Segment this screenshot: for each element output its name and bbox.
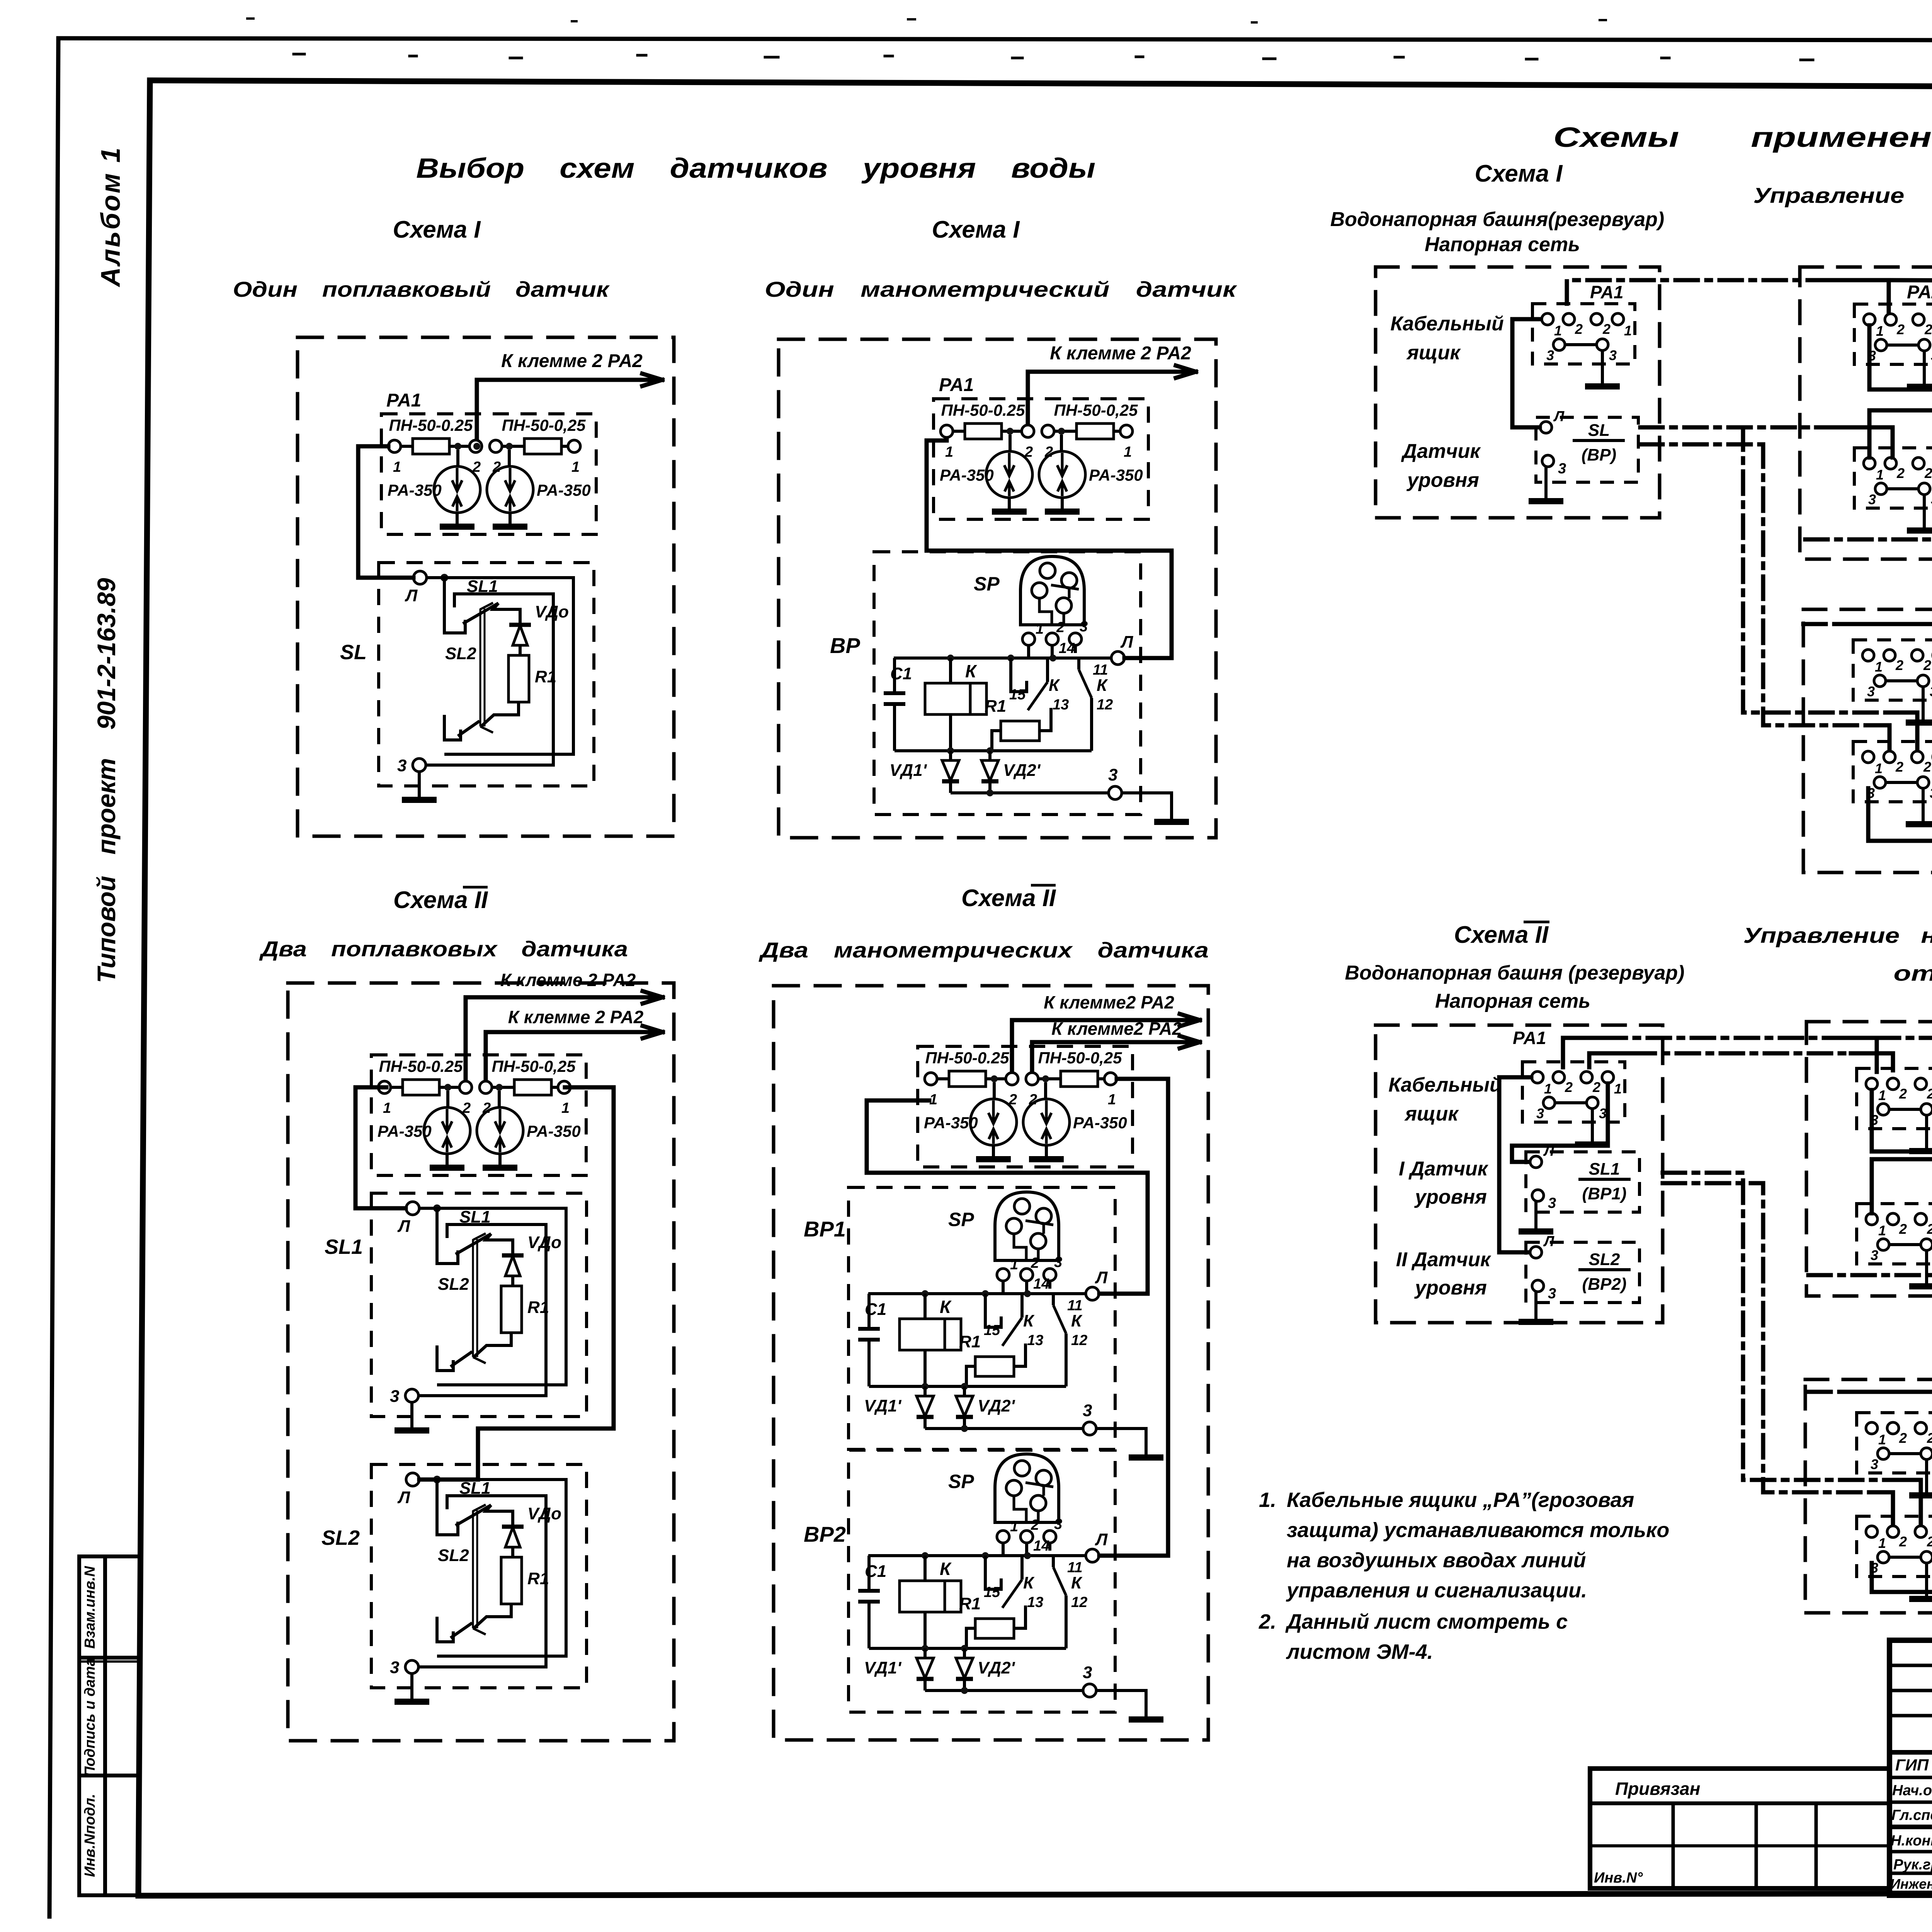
dash-dot trunk vertical 2 (II) — [1663, 1183, 1876, 1492]
sensor block SL1(ВР1) — [1519, 1152, 1639, 1231]
svg-text:Н.контр.: Н.контр. — [1891, 1833, 1932, 1849]
water tower dashed enclosure II — [1376, 1025, 1663, 1323]
dash-dot bottom trunk to РАЧ (II) — [1808, 1221, 1932, 1275]
sensor block SL(ВР) — [1529, 417, 1638, 501]
svg-text:3: 3 — [1548, 1286, 1556, 1302]
wire trunk1 to РА5.2r — [1886, 713, 1917, 750]
svg-text:РА1: РА1 — [939, 375, 974, 395]
svg-text:SL2: SL2 — [321, 1526, 360, 1549]
wire: PA1 terminal to SL1 Л — [1512, 1083, 1608, 1162]
terminal block РА6 II — [1857, 1413, 1932, 1495]
dash-dot rail entry (II) — [1808, 1390, 1840, 1394]
svg-text:II Датчик: II Датчик — [1396, 1248, 1492, 1271]
scan speck dashes above frame — [294, 54, 1932, 61]
svg-text:К клемме 2 РА2: К клемме 2 РА2 — [508, 1007, 644, 1027]
wire: fuse 1 left to SL1 Л — [355, 1087, 406, 1208]
svg-text:К клемме 2 РА2: К клемме 2 РА2 — [500, 970, 636, 990]
wire: К клемме 2 РА2 arrow — [477, 374, 662, 439]
outer sheet border top — [58, 38, 1932, 41]
pressure sensor unit ВР (panel 2) — [874, 552, 1189, 822]
svg-text:Кабельный: Кабельный — [1390, 313, 1503, 335]
control point dashed enclosure — [1803, 609, 1932, 872]
wire: fuse 1 left to BP1 Л — [867, 1100, 1148, 1294]
wire: fuse 1 right to BP2 Л — [1099, 1079, 1168, 1556]
terminal block РА2 II — [1857, 1068, 1932, 1151]
role rows — [1889, 1776, 1932, 1779]
svg-text:уровня: уровня — [1414, 1277, 1487, 1299]
terminal block РА6 — [1853, 640, 1932, 723]
svg-text:Кабельный: Кабельный — [1388, 1074, 1502, 1096]
terminal block РА5 II — [1857, 1516, 1932, 1599]
fuse/ammeter unit РА1 (panel 3) — [371, 1055, 586, 1175]
svg-text:SL2: SL2 — [1589, 1250, 1620, 1269]
wire: PA2.1 to 1-ЯУ Л1 — [1869, 325, 1932, 389]
svg-text:РА1: РА1 — [1513, 1028, 1546, 1048]
wire: К клемме 2 РА2 arrow — [1028, 366, 1196, 424]
wire: fuse 1 to BP Л terminal — [927, 440, 1172, 658]
float switch SL2 (panel 3) — [371, 1464, 587, 1702]
dash-dot vertical trunk 2 — [1763, 444, 1873, 725]
svg-text:2.: 2. — [1259, 1610, 1276, 1633]
svg-text:ящик: ящик — [1406, 342, 1461, 364]
svg-text:Два поплавковых датчика: Два поплавковых датчика — [259, 937, 628, 961]
trunk continues PA2 to 1-ЯУ — [1889, 280, 1932, 281]
sensor block SL2(ВР2) — [1519, 1242, 1639, 1322]
svg-text:I Датчик: I Датчик — [1399, 1158, 1489, 1180]
wire: К клемме 2 РА2 arrow (lower) — [486, 1026, 663, 1080]
wire: РА5 bottom to 1-ЯС 3 (II) — [1872, 1563, 1932, 1592]
trunk: PA1 to PA2 dash-dot upper — [1563, 1038, 1604, 1067]
wire: РА3.2 up to dash-dot trunk — [1816, 427, 1893, 457]
terminal block РА3 — [1854, 448, 1932, 531]
svg-text:Схема I: Схема I — [1475, 160, 1563, 187]
svg-text:ВР: ВР — [830, 633, 860, 658]
pressure sensor unit ВР1 (panel 4) — [849, 1187, 1163, 1458]
svg-text:листом ЭМ-4.: листом ЭМ-4. — [1286, 1640, 1433, 1663]
pressure sensor unit ВР2 (panel 4) — [849, 1449, 1163, 1719]
svg-text:Управление насосами от одно: Управление насосами от одного датчика ур… — [1753, 183, 1932, 207]
svg-text:Схема II: Схема II — [393, 887, 488, 913]
svg-text:управления и сигнализации.: управления и сигнализации. — [1286, 1579, 1587, 1602]
svg-text:Гл.спец.: Гл.спец. — [1891, 1807, 1932, 1823]
svg-text:Два манометрических датчика: Два манометрических датчика — [759, 938, 1209, 962]
terminal block РА5 — [1853, 742, 1932, 824]
wire: РА5 bottom to 1-ЯС 3 — [1868, 788, 1932, 841]
wire: 1-ЯУ 10 to РА3.1 — [1872, 1159, 1932, 1213]
left fine rows — [1889, 1664, 1932, 1667]
svg-text:(ВР2): (ВР2) — [1582, 1275, 1627, 1294]
svg-text:К клемме2 РА2: К клемме2 РА2 — [1044, 992, 1174, 1012]
terminal block РА1 — [1532, 304, 1635, 386]
svg-text:Схема II: Схема II — [961, 885, 1056, 912]
terminal block РА3 II — [1857, 1204, 1932, 1286]
svg-text:Кабельные ящики „РА”(грозовая: Кабельные ящики „РА”(грозовая — [1287, 1488, 1634, 1512]
node — [473, 443, 480, 450]
rail РА6 to 3-ЯС Л (II) — [1840, 1392, 1932, 1528]
svg-text:РА2: РА2 — [1907, 282, 1932, 303]
svg-text:3: 3 — [1558, 461, 1566, 477]
svg-text:на воздушных вводах линий: на воздушных вводах линий — [1287, 1549, 1586, 1572]
svg-text:Водонапорная башня (резервуар): Водонапорная башня (резервуар) — [1345, 962, 1685, 984]
svg-text:К клемме 2 РА2: К клемме 2 РА2 — [501, 351, 643, 371]
control point dashed enclosure II — [1805, 1379, 1932, 1613]
pump station dashed enclosure II — [1806, 1022, 1932, 1296]
svg-text:1.: 1. — [1259, 1488, 1276, 1512]
svg-text:Данный лист смотреть с: Данный лист смотреть с — [1285, 1610, 1568, 1633]
dash-dot trunk to sensor (lower) — [1640, 442, 1763, 447]
svg-text:Датчик: Датчик — [1401, 440, 1481, 463]
svg-text:Подпись и дата: Подпись и дата — [82, 1658, 98, 1777]
wire: PA1.1 down to SL2 Л — [1499, 1077, 1531, 1252]
dash-dot trunk vertical 1 (II) — [1663, 1173, 1889, 1480]
svg-text:ящик: ящик — [1404, 1103, 1459, 1125]
wire: PA2.1 to 1-ЯУ Л1 — [1872, 1084, 1932, 1151]
dash-dot vertical trunk 1 — [1743, 427, 1886, 713]
outer sheet border left — [49, 38, 58, 1917]
wire trunk2 to РА5.2 — [1873, 725, 1889, 750]
wire trunk2 to РА5.2 (II) — [1876, 1492, 1893, 1525]
wire: К клемме2 РА2 arrow (lower) — [1032, 1036, 1200, 1071]
wire: fuse 1 to float switch Л — [358, 446, 413, 578]
svg-text:от двух датчиков уровня.: от двух датчиков уровня. — [1894, 961, 1932, 985]
svg-text:Схема II: Схема II — [1454, 922, 1549, 948]
left margin column table — [77, 1556, 81, 1895]
svg-text:Привязан: Привязан — [1615, 1779, 1700, 1799]
wire: К клемме2 РА2 arrow (upper) — [1012, 1014, 1200, 1071]
terminal block РА2 — [1854, 304, 1932, 387]
dash-dot bottom trunk to РАЧ — [1805, 451, 1932, 539]
fuse/ammeter unit РА1 (panel 1) — [381, 414, 596, 534]
svg-text:(ВР1): (ВР1) — [1582, 1184, 1627, 1203]
wire: К клемме 2 РА2 arrow (upper) — [466, 991, 663, 1080]
trunk: PA1 to PA2 dash-dot lower — [1589, 1053, 1633, 1067]
wire: fuse 1 right to SL2 Л — [419, 1087, 614, 1480]
float switch SL1 (panel 3) — [371, 1193, 587, 1430]
dash-dot trunk to sensor (upper) — [1640, 425, 1816, 430]
terminal block РА1 II — [1522, 1062, 1625, 1145]
svg-text:SL1: SL1 — [1589, 1160, 1620, 1179]
fuse/ammeter unit РА1 (panel 4) — [918, 1046, 1133, 1167]
svg-text:Схема I: Схема I — [393, 216, 481, 243]
water tower dashed enclosure — [1376, 267, 1660, 518]
pump station dashed enclosure — [1800, 267, 1932, 559]
svg-text:защита) устанавливаются тольк: защита) устанавливаются только — [1287, 1519, 1669, 1542]
svg-text:Водонапорная башня(резервуар): Водонапорная башня(резервуар) — [1330, 208, 1665, 231]
wire: SL Л to PA1 terminal 1 — [1512, 319, 1541, 427]
svg-text:РА1: РА1 — [1590, 282, 1624, 302]
svg-text:ВР2: ВР2 — [804, 1522, 846, 1546]
trunk: PA1 to PA2 (dash-dot + solid) — [1567, 280, 1808, 304]
svg-text:РА1: РА1 — [386, 390, 421, 411]
svg-text:Управление насосами ( рабочи: Управление насосами ( рабочий - резервны… — [1743, 923, 1932, 947]
svg-text:уровня: уровня — [1414, 1186, 1487, 1208]
svg-text:уровня: уровня — [1406, 469, 1479, 492]
svg-text:SL: SL — [1588, 421, 1610, 440]
drawing frame (thick inner border) — [150, 80, 1932, 89]
rail РА6 to 3-ЯС Л — [1840, 624, 1932, 755]
long top trunk to 3-ЯУ Л1 — [1877, 1036, 1932, 1040]
panel 4 dashed enclosure — [774, 986, 1208, 1740]
svg-text:Взам.инв.N: Взам.инв.N — [82, 1566, 98, 1649]
wire: 1-ЯУ 10 to РА3.1 — [1869, 410, 1932, 457]
svg-text:(ВР): (ВР) — [1582, 446, 1616, 464]
svg-text:Альбом 1: Альбом 1 — [95, 146, 126, 287]
svg-text:Инв.Nподл.: Инв.Nподл. — [82, 1794, 98, 1877]
svg-text:Л: Л — [1553, 408, 1565, 425]
panel 1 dashed enclosure — [298, 337, 674, 836]
panel 2 dashed enclosure — [779, 339, 1216, 838]
svg-text:Л: Л — [1543, 1233, 1554, 1250]
svg-text:Типовой проект 901-2-163.: Типовой проект 901-2-163.89 — [92, 578, 121, 983]
wire trunk1 to РА5.2r (II) — [1889, 1480, 1921, 1525]
svg-text:SL: SL — [340, 641, 367, 664]
float switch SL (panel 1) — [379, 563, 594, 800]
panel 3 dashed enclosure — [288, 983, 674, 1741]
svg-text:Напорная сеть: Напорная сеть — [1435, 990, 1590, 1012]
svg-text:Инженер: Инженер — [1890, 1876, 1932, 1892]
svg-text:ГИП: ГИП — [1895, 1756, 1929, 1774]
dash-dot rail entry — [1803, 622, 1840, 626]
svg-text:Один манометрический датчик: Один манометрический датчик — [765, 277, 1237, 301]
svg-text:К клемме 2 РА2: К клемме 2 РА2 — [1050, 343, 1191, 364]
attachment table left — [1590, 1769, 1889, 1888]
svg-text:Рук.гр.: Рук.гр. — [1893, 1857, 1932, 1873]
svg-text:Л: Л — [1543, 1143, 1554, 1159]
svg-text:SL1: SL1 — [325, 1235, 363, 1259]
svg-text:Схема I: Схема I — [932, 216, 1020, 243]
svg-text:Инв.N°: Инв.N° — [1594, 1870, 1643, 1886]
svg-text:Один поплавковый датчик: Один поплавковый датчик — [233, 277, 610, 301]
svg-text:3: 3 — [1548, 1195, 1556, 1211]
fuse/ammeter unit РА1 (panel 2) — [934, 399, 1148, 519]
svg-text:Нач.отд.: Нач.отд. — [1892, 1782, 1932, 1799]
svg-text:Схемы применения проекта: Схемы применения проекта автоматизации — [1553, 122, 1932, 153]
svg-text:ВР1: ВР1 — [804, 1217, 846, 1241]
title block outer — [1889, 1640, 1932, 1895]
svg-text:Выбор схем датчиков уровня: Выбор схем датчиков уровня воды — [416, 153, 1095, 184]
svg-text:Напорная сеть: Напорная сеть — [1425, 233, 1580, 256]
svg-text:К клемме2 РА2: К клемме2 РА2 — [1051, 1019, 1182, 1039]
